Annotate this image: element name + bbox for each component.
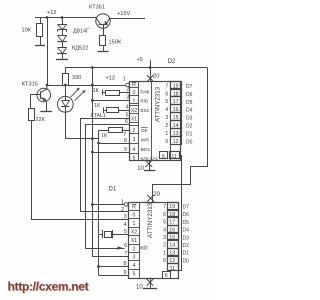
svg-text:330: 330 [72, 75, 81, 81]
LED VD [65, 85, 67, 97]
svg-text:1К: 1К [93, 88, 99, 94]
svg-text:КТ315: КТ315 [22, 82, 38, 88]
wire D1 pin1 [92, 204, 124, 206]
svg-text:D6: D6 [186, 92, 193, 98]
wire diode chain bottom [62, 53, 64, 60]
junction dot A [46, 16, 49, 19]
X mark [145, 160, 152, 167]
svg-text:10К: 10К [22, 28, 32, 34]
resistor 22K [29, 109, 35, 121]
wire net x86 vertical / D2 pin6 [86, 125, 130, 249]
svg-text:1К: 1К [101, 133, 107, 139]
svg-text:1: 1 [165, 131, 168, 137]
wire D1 pin9 [99, 275, 129, 277]
svg-text:2: 2 [133, 128, 136, 134]
wire +5 right side down to D1 pin 20 [153, 68, 208, 203]
X mark [147, 75, 154, 82]
diode KD522 (2) [62, 41, 64, 47]
svg-text:22К: 22К [36, 117, 46, 123]
svg-text:11: 11 [171, 154, 177, 160]
svg-text:3: 3 [133, 137, 136, 143]
D1 pin1 bubble [124, 203, 128, 207]
svg-text:1: 1 [133, 221, 136, 227]
svg-text:4: 4 [165, 107, 168, 113]
X mark [147, 279, 154, 286]
svg-text:Д814Г: Д814Г [73, 28, 89, 34]
svg-text:BD1: BD1 [141, 147, 151, 153]
svg-text:1: 1 [123, 77, 126, 83]
svg-text:R: R [132, 82, 136, 88]
svg-text:7: 7 [123, 132, 126, 138]
svg-text:D3: D3 [183, 235, 190, 241]
svg-text:Х1: Х1 [131, 238, 137, 244]
svg-text:Х2: Х2 [131, 230, 137, 236]
wire +12 rail [35, 17, 97, 19]
svg-text:D0: D0 [183, 258, 190, 264]
D2 box 11 [170, 152, 180, 159]
junction dot collector/node [46, 84, 49, 87]
svg-text:5: 5 [133, 272, 136, 278]
svg-text:6: 6 [133, 155, 136, 161]
svg-text:0: 0 [165, 139, 168, 145]
svg-text:2: 2 [126, 87, 129, 93]
svg-text:BS2: BS2 [140, 108, 149, 113]
wire D1 pin7 [92, 256, 128, 258]
wire D2 pin9 [92, 152, 129, 154]
svg-text:D5: D5 [183, 220, 190, 226]
svg-text:1: 1 [163, 250, 166, 256]
svg-text:D3: D3 [186, 116, 193, 122]
svg-text:4: 4 [133, 263, 136, 269]
D1 right pin boxes [168, 203, 179, 211]
svg-text:3: 3 [126, 95, 129, 101]
D1 pin10 ground [150, 278, 152, 288]
svg-text:150К: 150К [109, 39, 122, 45]
junction dot rail x92 [91, 66, 94, 69]
svg-text:7: 7 [165, 83, 168, 89]
svg-text:D7: D7 [183, 204, 190, 210]
wire net x80 vertical / D2 pin5 XTAL1 [81, 119, 130, 212]
svg-text:ATTINY2313: ATTINY2313 [155, 86, 162, 122]
svg-text:РАФ: РАФ [140, 89, 150, 94]
svg-text:20: 20 [153, 73, 159, 79]
zener D814G [62, 18, 64, 25]
wire +5 rail [65, 67, 207, 69]
svg-text:WR: WR [141, 137, 150, 143]
resistor 1K pin7 [99, 130, 109, 132]
wire reset line y85 [47, 85, 126, 87]
D1 left pin boxes [129, 210, 140, 212]
svg-text:ОЕ: ОЕ [141, 128, 148, 134]
svg-text:+15V: +15V [117, 11, 130, 17]
svg-text:3: 3 [163, 235, 166, 241]
D2 box 6 [160, 152, 168, 159]
svg-text:3: 3 [124, 214, 127, 220]
svg-text:0: 0 [133, 213, 136, 219]
svg-text:+12: +12 [47, 10, 57, 16]
svg-text:+12: +12 [106, 76, 116, 82]
wire D1 pin11 [170, 270, 182, 272]
wire net x98.5 vertical [98, 130, 100, 275]
svg-text:14: 14 [169, 243, 175, 249]
svg-text:8: 8 [124, 261, 127, 267]
svg-text:5: 5 [163, 220, 166, 226]
svg-text:2: 2 [165, 123, 168, 129]
svg-text:0: 0 [133, 90, 136, 96]
svg-text:int0: int0 [140, 245, 148, 251]
svg-text:4: 4 [126, 104, 129, 110]
svg-text:10: 10 [136, 285, 143, 291]
svg-text:D1: D1 [109, 186, 117, 192]
svg-text:D5: D5 [186, 100, 193, 106]
svg-text:D1: D1 [183, 251, 190, 257]
svg-text:6: 6 [125, 119, 128, 125]
wire +5 to D2 pin20 [150, 60, 152, 81]
svg-text:9: 9 [124, 147, 127, 153]
svg-text:ХА0 ХА1: ХА0 ХА1 [140, 156, 158, 161]
wire collector drop [47, 18, 49, 86]
svg-text:7: 7 [163, 204, 166, 210]
svg-text:4: 4 [124, 222, 127, 228]
svg-text:R: R [132, 204, 136, 210]
svg-text:D7: D7 [186, 84, 193, 90]
D2 pin10 ground [149, 161, 151, 171]
wire D2 pin8 [99, 143, 130, 145]
svg-text:Х1: Х1 [131, 116, 137, 122]
junction dot rail x150 [149, 66, 152, 69]
svg-text:3: 3 [133, 255, 136, 261]
wire D1 pin8 [99, 266, 129, 268]
D2 right pin boxes [171, 82, 182, 90]
junction dot 330/LED [64, 84, 67, 87]
svg-text:D2: D2 [183, 243, 190, 249]
svg-text:6: 6 [165, 273, 168, 279]
svg-text:D2: D2 [186, 124, 193, 130]
svg-text:3: 3 [165, 115, 168, 121]
svg-text:+5: +5 [137, 57, 143, 63]
svg-text:КТ361: КТ361 [89, 5, 105, 11]
D1 pin6 wire arrow int0 [118, 246, 123, 250]
svg-text:5: 5 [165, 99, 168, 105]
svg-text:XTAL1: XTAL1 [90, 113, 106, 119]
crystal ZQ [112, 234, 128, 236]
resistor 10K [40, 18, 42, 24]
D2 left pin boxes [130, 87, 139, 89]
svg-text:6: 6 [124, 243, 127, 249]
svg-text:D2: D2 [168, 59, 176, 65]
D1 box 6 bottom [163, 272, 171, 279]
wire net x92 vertical [92, 68, 94, 257]
svg-text:D4: D4 [186, 108, 193, 114]
svg-text:http://cxem.net: http://cxem.net [8, 279, 89, 293]
svg-text:2: 2 [121, 207, 124, 213]
svg-text:1К: 1К [94, 103, 100, 109]
svg-text:D1: D1 [186, 132, 193, 138]
svg-text:4: 4 [133, 147, 136, 153]
svg-text:Х2: Х2 [131, 108, 137, 114]
D1 box 11 [168, 264, 179, 271]
svg-text:6: 6 [163, 212, 166, 218]
wire +15V [110, 18, 145, 20]
svg-text:7: 7 [124, 251, 127, 257]
X mark [147, 195, 154, 202]
D2 pin1 bubble [126, 83, 130, 87]
svg-text:6: 6 [162, 154, 165, 160]
svg-text:17: 17 [169, 220, 175, 226]
resistor 330 [65, 68, 67, 74]
chip D1 ATTINY2313 body [129, 203, 179, 279]
svg-text:6: 6 [165, 91, 168, 97]
svg-text:R/B: R/B [140, 98, 148, 103]
wire base loop [30, 95, 32, 108]
svg-text:9: 9 [124, 270, 127, 276]
wire D2 pin3 [92, 100, 129, 102]
svg-text:D6: D6 [183, 212, 190, 218]
wire D2 pin11 to D1 pin11 [171, 156, 182, 271]
svg-text:8: 8 [124, 138, 127, 144]
svg-text:2: 2 [163, 243, 166, 249]
svg-text:5: 5 [126, 112, 129, 118]
svg-text:КД522: КД522 [72, 45, 88, 51]
chip D2 ATTINY2313 body [130, 82, 181, 161]
wire 22K to D1 pin3 [32, 121, 129, 220]
diode KD522 (1) [62, 30, 64, 36]
svg-text:20: 20 [153, 191, 160, 198]
ground diode chain [56, 59, 68, 61]
svg-text:0: 0 [163, 258, 166, 264]
svg-text:10: 10 [137, 166, 144, 172]
svg-text:12: 12 [173, 139, 179, 145]
ground KT315 emitter [40, 111, 52, 113]
svg-text:1: 1 [121, 199, 124, 205]
resistor 150K [100, 36, 106, 46]
svg-text:D0: D0 [186, 140, 193, 146]
svg-text:D4: D4 [183, 228, 190, 234]
svg-text:ATTINY2313: ATTINY2313 [147, 202, 154, 238]
svg-text:2: 2 [133, 246, 136, 252]
svg-text:4: 4 [163, 227, 166, 233]
wire LED cathode [66, 113, 99, 139]
junction dot diode chain [61, 16, 64, 19]
